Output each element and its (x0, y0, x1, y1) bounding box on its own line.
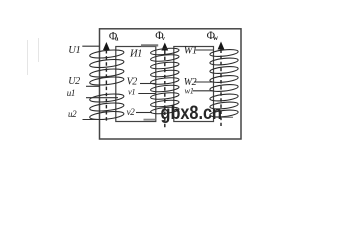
svg-text:u1: u1 (67, 88, 75, 98)
svg-text:u: u (115, 35, 119, 42)
svg-text:W1: W1 (184, 45, 197, 56)
svg-text:U1: U1 (68, 45, 80, 56)
svg-text:w1: w1 (185, 85, 194, 95)
svg-text:v: v (162, 35, 166, 42)
svg-text:gbx8.cn: gbx8.cn (161, 103, 223, 124)
svg-text:w: w (213, 34, 219, 42)
svg-text:И1: И1 (129, 49, 142, 60)
svg-text:U2: U2 (68, 76, 80, 87)
svg-text:v1: v1 (128, 86, 135, 96)
svg-text:u2: u2 (68, 109, 77, 119)
svg-text:v2: v2 (127, 107, 136, 117)
